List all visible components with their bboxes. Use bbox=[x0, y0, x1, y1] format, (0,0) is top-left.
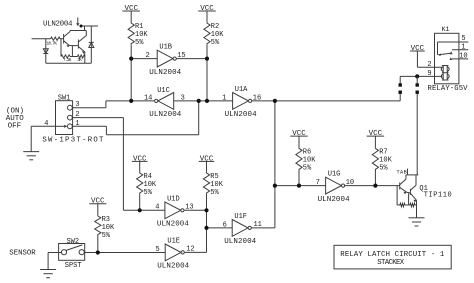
switch SW2 SPST bbox=[59, 238, 85, 270]
relay K1 NO contact pin 10 bbox=[449, 57, 468, 60]
wire U1A output to relay riser bbox=[399, 76, 401, 101]
pin 4 label SW1 bbox=[44, 120, 48, 128]
svg-text:R6: R6 bbox=[303, 149, 311, 157]
power VCC (R6) bbox=[290, 130, 308, 147]
svg-text:ULN2004: ULN2004 bbox=[149, 111, 181, 119]
wire R1 to U1B input bbox=[131, 58, 157, 60]
pin 1 label K1 bbox=[461, 44, 465, 52]
wire U1C output left bbox=[106, 100, 154, 102]
op-amp U1B inverter bbox=[149, 44, 181, 77]
node R7 junction bbox=[373, 184, 377, 188]
pin 5 label K1 bbox=[461, 35, 465, 43]
pin 13 label U1D output bbox=[185, 204, 193, 212]
node R4/U1D-in junction bbox=[138, 208, 142, 212]
node R6 junction bbox=[297, 184, 301, 188]
svg-text:R1: R1 bbox=[135, 23, 143, 31]
op-amp U1C inverter bbox=[149, 87, 181, 119]
wire latch column to U1F input bbox=[207, 227, 233, 229]
demo cell output pin stub bbox=[76, 18, 82, 28]
op-amp U1E inverter bbox=[157, 237, 189, 270]
svg-text:ULN2004: ULN2004 bbox=[318, 196, 350, 204]
ground (SW2) bbox=[40, 253, 56, 278]
svg-text:10.7K: 10.7K bbox=[47, 41, 58, 46]
node R1/U1B junction bbox=[129, 57, 133, 61]
title block box bbox=[334, 245, 451, 269]
svg-text:ULN2004: ULN2004 bbox=[157, 263, 189, 271]
svg-text:U1G: U1G bbox=[328, 171, 341, 179]
node R2/U1C-in junction bbox=[205, 99, 209, 103]
wire SW1 pin4 to ground bbox=[31, 125, 56, 127]
label TIP110 bbox=[424, 191, 452, 199]
label (ON) AUTO OFF bbox=[6, 107, 25, 130]
pin 10 label K1 bbox=[459, 53, 467, 61]
svg-text:10K: 10K bbox=[102, 224, 115, 232]
svg-text:5%: 5% bbox=[210, 189, 219, 197]
demo cell input wire bbox=[32, 38, 64, 40]
svg-text:R2: R2 bbox=[211, 23, 219, 31]
pin 16 label U1A output bbox=[253, 94, 261, 102]
svg-text:R5: R5 bbox=[210, 173, 218, 181]
svg-text:TIP110: TIP110 bbox=[424, 191, 452, 199]
connector pins left pair bbox=[399, 83, 402, 94]
svg-text:R7: R7 bbox=[379, 149, 387, 157]
wire latch column down bbox=[185, 210, 207, 252]
svg-text:U1A: U1A bbox=[235, 86, 248, 94]
svg-text:5: 5 bbox=[461, 35, 465, 43]
node R2/U1B-out junction bbox=[205, 57, 209, 61]
svg-text:U1B: U1B bbox=[159, 44, 172, 52]
power VCC (R4) bbox=[132, 155, 148, 172]
relay K1 NC contact pin 1 bbox=[450, 50, 469, 55]
wire relay pin 2 bbox=[417, 66, 442, 68]
svg-text:R4: R4 bbox=[144, 173, 152, 181]
pin 3 label U1C input bbox=[181, 94, 185, 102]
power VCC (R3) bbox=[89, 197, 106, 215]
svg-text:5%: 5% bbox=[102, 232, 111, 240]
svg-text:ULN2004: ULN2004 bbox=[43, 21, 73, 29]
svg-text:2: 2 bbox=[427, 61, 431, 69]
power VCC (relay) bbox=[410, 45, 425, 67]
power VCC (R2) bbox=[198, 5, 216, 22]
pin 10 label U1G output bbox=[346, 179, 354, 187]
ULN2004 internal cell label bbox=[43, 21, 73, 29]
wire U1F output to node C bbox=[252, 227, 275, 229]
svg-text:ULN2004: ULN2004 bbox=[157, 221, 189, 229]
label RELAY-G5V bbox=[428, 85, 469, 93]
pin 1 label U1A input bbox=[222, 94, 226, 102]
resistor R4 10K 5% bbox=[137, 172, 157, 211]
wire U1B output to R2 bbox=[177, 58, 207, 60]
power VCC (R7) bbox=[367, 130, 385, 147]
title text bbox=[340, 251, 445, 259]
svg-text:R3: R3 bbox=[102, 216, 110, 224]
wire SW1 pin1 to latch node bbox=[72, 101, 199, 135]
svg-text:10K: 10K bbox=[135, 31, 148, 39]
svg-text:TAB: TAB bbox=[397, 170, 407, 176]
svg-text:ULN2004: ULN2004 bbox=[149, 69, 181, 77]
svg-text:U1E: U1E bbox=[167, 237, 180, 245]
power VCC (R1) bbox=[122, 5, 140, 22]
pin 7 label U1G input bbox=[316, 179, 320, 187]
wire node C riser bbox=[274, 101, 276, 228]
relay K1 coil bbox=[441, 66, 449, 81]
transistor Q1 TIP110 darlington bbox=[400, 175, 419, 218]
op-amp U1F inverter bbox=[224, 213, 256, 246]
wire node C to U1G input bbox=[275, 185, 326, 187]
Q1 internal base-emitter resistors bbox=[397, 186, 416, 207]
subtitle text bbox=[377, 259, 405, 267]
svg-text:9: 9 bbox=[427, 70, 431, 78]
pin 2 label SW1 bbox=[75, 111, 79, 119]
svg-text:SW-1P3T-ROT: SW-1P3T-ROT bbox=[42, 137, 104, 145]
resistor R7 10K 5% bbox=[372, 147, 392, 185]
pin 12 label U1E output bbox=[186, 246, 194, 254]
wire U1G output to Q1 base bbox=[345, 185, 400, 187]
node C/U1G-in junction bbox=[273, 184, 277, 188]
svg-text:10K: 10K bbox=[379, 157, 392, 165]
svg-text:3K: 3K bbox=[77, 58, 82, 63]
wire U1A output east bbox=[252, 100, 400, 102]
svg-text:STACKEX: STACKEX bbox=[377, 259, 405, 267]
svg-text:U1D: U1D bbox=[167, 195, 180, 203]
demo cell transistor T1 bbox=[64, 31, 70, 48]
wire relay to Q1 collector riser bbox=[416, 76, 418, 174]
demo cell transistor T2 bbox=[70, 31, 87, 64]
demo cell rail link bbox=[84, 26, 86, 31]
node latch/U1F-in junction bbox=[204, 226, 208, 230]
node U1C-out/R1 junction bbox=[129, 99, 133, 103]
demo cell base resistor 3K bbox=[70, 46, 85, 63]
op-amp U1A inverter bbox=[225, 86, 257, 119]
pin 2 label U1B input bbox=[145, 52, 149, 60]
pin 2 label K1 bbox=[427, 61, 431, 69]
svg-text:SENSOR: SENSOR bbox=[9, 250, 36, 258]
pin 9 label K1 bbox=[427, 70, 431, 78]
wire SW2 to U1E input bbox=[85, 252, 166, 254]
label TAB bbox=[397, 169, 408, 176]
svg-text:10K: 10K bbox=[211, 31, 224, 39]
resistor R1 10K 5% bbox=[128, 22, 148, 59]
label Q1 bbox=[419, 185, 427, 193]
svg-text:5%: 5% bbox=[135, 39, 144, 47]
demo cell flyback diode D2 bbox=[89, 26, 94, 63]
svg-text:ULN2004: ULN2004 bbox=[225, 111, 257, 119]
wire relay pin 9 bbox=[400, 75, 442, 77]
demo cell collector rail bbox=[70, 26, 98, 31]
demo cell input resistor 10.7K bbox=[47, 37, 61, 46]
connector pins right pair bbox=[416, 83, 419, 94]
pin 4 label U1D input bbox=[155, 204, 159, 212]
svg-text:5%: 5% bbox=[144, 189, 153, 197]
svg-text:OFF: OFF bbox=[8, 122, 22, 130]
wire SW1 pin2 to U1D input bbox=[72, 118, 165, 211]
svg-text:10K: 10K bbox=[144, 181, 157, 189]
resistor R3 10K 5% bbox=[95, 215, 115, 253]
svg-text:10K: 10K bbox=[210, 181, 223, 189]
node R3/SW2 junction bbox=[96, 250, 100, 254]
resistor R2 10K 5% bbox=[204, 22, 224, 59]
label SENSOR bbox=[9, 250, 36, 258]
pin 15 label U1B output bbox=[177, 52, 185, 60]
ground (SW1 common) bbox=[23, 126, 39, 160]
wire jog to SW1 pin3 bbox=[72, 101, 106, 108]
pin 3 label SW1 bbox=[75, 101, 79, 109]
svg-text:5%: 5% bbox=[303, 165, 312, 173]
node relay feed junction bbox=[415, 74, 419, 78]
svg-text:5%: 5% bbox=[379, 165, 388, 173]
svg-text:10: 10 bbox=[459, 53, 467, 61]
demo cell bottom rail bbox=[46, 62, 92, 64]
wire U1C input to U1A input bbox=[174, 100, 233, 102]
svg-text:SPST: SPST bbox=[65, 262, 82, 270]
pin 1 label SW1 bbox=[75, 120, 79, 128]
svg-text:K1: K1 bbox=[442, 26, 450, 33]
svg-text:1: 1 bbox=[461, 44, 465, 52]
wire R1 column down bbox=[130, 59, 132, 101]
wire U1D output to latch column bbox=[184, 209, 206, 211]
relay K1 pin 5 wire and armature bbox=[438, 42, 469, 56]
op-amp U1D inverter bbox=[157, 195, 189, 228]
svg-text:5%: 5% bbox=[211, 39, 220, 47]
resistor R6 10K 5% bbox=[296, 147, 316, 185]
svg-text:SW1: SW1 bbox=[58, 94, 71, 102]
pin 14 label U1C output bbox=[144, 94, 152, 102]
svg-text:U1C: U1C bbox=[157, 87, 170, 95]
svg-text:10K: 10K bbox=[303, 157, 316, 165]
resistor R5 10K 5% bbox=[203, 172, 223, 211]
switch SW1 SW-1P3T-ROT bbox=[42, 94, 104, 144]
wire SW2 left to ground bbox=[48, 252, 61, 254]
op-amp U1G inverter bbox=[318, 171, 350, 204]
pin 11 label U1F output bbox=[253, 221, 261, 229]
wire R2 column down bbox=[206, 59, 208, 101]
svg-text:U1F: U1F bbox=[234, 213, 247, 221]
svg-text:RELAY LATCH CIRCUIT - 1: RELAY LATCH CIRCUIT - 1 bbox=[340, 251, 445, 259]
node R5/U1D-out junction bbox=[204, 208, 208, 212]
node U1A-out branch junction bbox=[273, 99, 277, 103]
pin 6 label U1F input bbox=[223, 221, 227, 229]
svg-text:ULN2004: ULN2004 bbox=[224, 238, 256, 246]
pin 5 label U1E input bbox=[155, 246, 159, 254]
svg-text:7.2K: 7.2K bbox=[63, 58, 72, 63]
ground (Q1 emitter) bbox=[409, 218, 425, 226]
demo cell input clamp diode D1 bbox=[43, 39, 48, 64]
node OFF-wire junction bbox=[197, 99, 201, 103]
svg-text:RELAY-G5V: RELAY-G5V bbox=[428, 85, 469, 93]
relay K1 box bbox=[435, 26, 459, 84]
svg-text:SW2: SW2 bbox=[66, 238, 79, 246]
power VCC (R5) bbox=[199, 155, 215, 172]
demo cell base resistor 7.2K bbox=[61, 39, 72, 63]
